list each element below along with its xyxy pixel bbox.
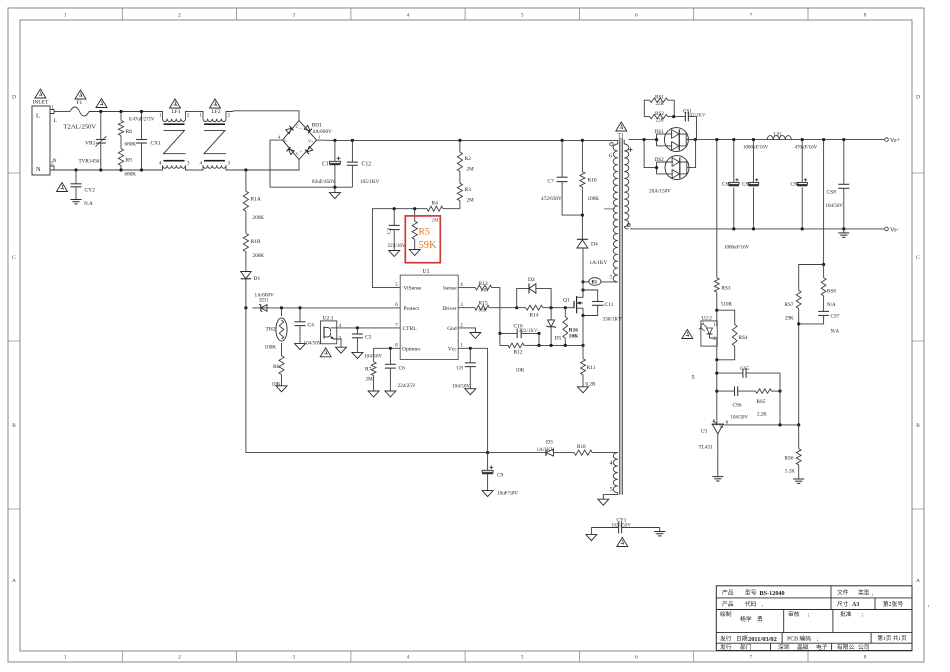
ground C5: [352, 352, 363, 358]
svg-text:发行: 发行: [720, 635, 732, 643]
wire N from inlet: [54, 169, 162, 171]
resistor R12: [500, 333, 508, 345]
node N-CY2: [74, 168, 77, 171]
node CTRL-C5: [356, 326, 359, 329]
ground primary bus: [334, 187, 336, 192]
capacitor C10: [500, 332, 517, 334]
svg-text:59K: 59K: [419, 240, 438, 251]
capacitor CS6: [717, 390, 735, 392]
node rail-snubberL: [643, 138, 646, 141]
svg-text:1000uF/16V: 1000uF/16V: [724, 246, 750, 251]
node bus-C1: [333, 139, 336, 142]
svg-text:200K: 200K: [253, 253, 265, 259]
svg-text:3: 3: [292, 655, 295, 661]
svg-text:1: 1: [319, 135, 321, 140]
node vo- CS4: [801, 227, 804, 230]
svg-text:R18: R18: [577, 444, 586, 450]
svg-text:T2AL/250V: T2AL/250V: [64, 124, 97, 131]
wire N rail to bridge bottom: [228, 160, 299, 171]
wire aux to ground: [603, 493, 618, 500]
svg-text:R9: R9: [126, 158, 133, 164]
svg-text:C7: C7: [548, 179, 555, 185]
svg-text:L: L: [36, 113, 40, 120]
node DS2-in: [655, 166, 658, 169]
node rail-R16: [564, 344, 567, 347]
svg-text:U2:2: U2:2: [702, 316, 713, 322]
svg-text:公司: 公司: [858, 644, 870, 651]
svg-text:R7: R7: [365, 367, 372, 373]
dual diode DS1: [655, 128, 696, 152]
svg-text:A3: A3: [852, 602, 859, 608]
capacitor C6: [389, 348, 391, 364]
choke LF1: [161, 112, 163, 119]
svg-text:Vcc: Vcc: [448, 346, 457, 352]
node RS7-CS7: [797, 322, 800, 325]
wire sense drop: [823, 140, 825, 265]
capacitor C7: [561, 140, 563, 177]
node Optimer-C6: [389, 347, 392, 350]
capacitor C8: [469, 348, 471, 363]
svg-text:CS4: CS4: [791, 183, 800, 188]
transformer primary winding: [616, 140, 618, 144]
svg-text:7: 7: [610, 275, 613, 281]
svg-text:VR1: VR1: [85, 141, 96, 147]
svg-text:100K: 100K: [265, 345, 277, 351]
svg-text:223/16V: 223/16V: [388, 243, 406, 249]
warning triangle T1: [616, 122, 627, 131]
svg-text:3: 3: [292, 13, 295, 19]
svg-text:R5: R5: [419, 228, 430, 238]
node N-VR1: [99, 168, 102, 171]
svg-text:R13: R13: [479, 281, 488, 287]
highlight box R5: [405, 216, 440, 263]
title block: [716, 586, 912, 651]
ground secondary: [843, 229, 845, 233]
svg-text:2M: 2M: [467, 198, 475, 204]
svg-text:4: 4: [610, 461, 613, 467]
resistor R7: [371, 362, 376, 376]
svg-text:部门: 部门: [740, 643, 752, 651]
ground C9: [482, 491, 493, 497]
resistor R13: [475, 285, 492, 290]
wire RS3 drop: [716, 140, 718, 278]
ground aux winding: [598, 499, 609, 505]
node rail-Q1source: [581, 344, 584, 347]
svg-text:RS7: RS7: [785, 302, 794, 308]
svg-text:D: D: [12, 95, 16, 101]
node gate-D5: [550, 306, 553, 309]
svg-text:105/1KV: 105/1KV: [360, 179, 380, 185]
node N-R9: [119, 168, 122, 171]
svg-text:R2: R2: [465, 156, 472, 162]
capacitor CS8: [843, 140, 845, 185]
svg-text:N.A: N.A: [84, 201, 93, 207]
svg-text:型号: 型号: [745, 589, 757, 597]
svg-text:发行: 发行: [720, 643, 732, 651]
warning triangle U2:2: [682, 330, 693, 339]
wire split to RS7: [799, 265, 824, 291]
ground C4: [295, 344, 306, 350]
primary polarity mark: [604, 208, 615, 210]
node C10-right: [537, 332, 540, 335]
svg-text:U3: U3: [701, 429, 708, 435]
resistor R8: [120, 112, 122, 121]
svg-text:R14: R14: [530, 313, 539, 319]
node L-CX1: [140, 110, 143, 113]
node protect-C4: [298, 306, 301, 309]
node vo- CS2: [732, 227, 735, 230]
svg-text:10K: 10K: [272, 382, 281, 388]
svg-text:K: K: [713, 418, 716, 423]
warning triangle U2:1: [320, 348, 331, 357]
resistor R9: [120, 142, 122, 149]
shunt regulator U3 TL431: [712, 423, 724, 425]
svg-text:T1: T1: [618, 133, 624, 139]
svg-text:LS1: LS1: [774, 132, 783, 138]
ferrite bead B1: [583, 281, 589, 283]
thermistor TH2: [281, 308, 283, 316]
ground R6: [276, 386, 287, 392]
svg-text:10R: 10R: [480, 289, 489, 294]
svg-text:1A/1KV: 1A/1KV: [537, 447, 555, 453]
capacitor CS7: [818, 310, 829, 312]
svg-text:RS6: RS6: [785, 456, 794, 462]
svg-text:CS2: CS2: [722, 183, 731, 188]
wire fb node: [716, 360, 718, 426]
svg-text:6: 6: [609, 154, 612, 160]
svg-text:RS1: RS1: [655, 95, 664, 101]
svg-text:RS4: RS4: [739, 335, 748, 341]
svg-text:330/1KV: 330/1KV: [603, 317, 623, 323]
svg-text:审核: 审核: [788, 610, 800, 618]
svg-text:第2张号: 第2张号: [883, 600, 903, 608]
svg-text:29K: 29K: [785, 317, 794, 322]
svg-text:82uF/450V: 82uF/450V: [312, 179, 336, 185]
svg-text:22R: 22R: [656, 118, 665, 123]
svg-text:1000uF/16V: 1000uF/16V: [743, 146, 769, 151]
resistor RS2: [650, 114, 668, 118]
wire snubber left drop: [644, 140, 657, 168]
resistor R15: [458, 307, 475, 309]
svg-text:B: B: [12, 423, 16, 429]
svg-text:RS2: RS2: [655, 111, 664, 117]
wire secondary top rail: [629, 139, 657, 141]
svg-text:5.1K: 5.1K: [785, 470, 795, 475]
svg-text:R12: R12: [514, 350, 523, 356]
svg-text:C: C: [916, 255, 920, 261]
node bus-R2: [458, 139, 461, 142]
svg-text:Gnd: Gnd: [447, 326, 457, 332]
svg-text:5: 5: [521, 13, 524, 19]
node drain-bead: [581, 280, 584, 283]
svg-text:100K: 100K: [588, 196, 600, 202]
ground U2:1: [336, 347, 347, 353]
node vo- CS3: [752, 227, 755, 230]
node snubber-D4: [581, 214, 584, 217]
wire Gnd pin: [458, 328, 475, 333]
ground RS6: [798, 476, 800, 480]
wire LF1-LF2 link: [188, 111, 202, 113]
svg-text:CTRL: CTRL: [403, 326, 418, 332]
diode D2: [517, 288, 529, 307]
wire Isense pin: [458, 287, 471, 289]
svg-text:2: 2: [178, 655, 181, 661]
warning triangle CY1: [617, 538, 628, 547]
svg-text:C: C: [12, 255, 16, 261]
resistor R4: [427, 206, 443, 211]
ground CY1 right: [659, 528, 661, 532]
node rail-R12: [537, 344, 540, 347]
node sense-split: [822, 263, 825, 266]
svg-text:R3: R3: [465, 187, 472, 193]
optocoupler U2:2: [701, 321, 717, 346]
wire Vcc pin: [458, 348, 487, 452]
svg-text:2: 2: [296, 124, 298, 129]
resistor R10: [581, 140, 583, 171]
node Vcc-C8: [469, 347, 472, 350]
svg-text:R1B: R1B: [251, 239, 261, 245]
svg-text:杨学: 杨学: [740, 615, 752, 623]
svg-text:第1页 共1页: 第1页 共1页: [877, 634, 907, 642]
svg-text:5: 5: [610, 487, 613, 493]
svg-text:10uF/50V: 10uF/50V: [497, 491, 518, 497]
svg-text:ViSense: ViSense: [404, 286, 423, 292]
svg-text:Optimer: Optimer: [402, 346, 420, 352]
wire Optimer: [374, 348, 401, 362]
node rail-RS3: [715, 138, 718, 141]
capacitor C4: [299, 308, 301, 322]
transformer T1 core: [619, 138, 621, 495]
optocoupler U2:1: [321, 321, 337, 344]
svg-text:U1: U1: [422, 269, 429, 275]
svg-text:晶磁: 晶磁: [797, 643, 809, 651]
svg-text:文件: 文件: [837, 589, 849, 597]
svg-text:V+: V+: [308, 139, 314, 144]
svg-text:日期: 日期: [736, 636, 748, 643]
node driver-D2: [515, 306, 518, 309]
svg-text:勇: 勇: [757, 615, 763, 623]
wire source rail: [538, 333, 540, 345]
resistor R18: [560, 452, 574, 454]
diode D1: [245, 266, 247, 272]
connector J1 INLET: [32, 106, 50, 175]
svg-text:Driver: Driver: [442, 306, 457, 312]
svg-text:2M: 2M: [366, 377, 374, 383]
choke LF2: [201, 112, 203, 119]
svg-text:D2: D2: [528, 277, 535, 283]
svg-text:222/1KV: 222/1KV: [519, 329, 538, 334]
resistor RS6: [798, 425, 800, 449]
svg-text:A: A: [12, 578, 16, 584]
svg-text:BS-12040: BS-12040: [760, 590, 785, 597]
node L-R8: [119, 110, 122, 113]
node RS2-CS1: [672, 115, 675, 118]
capacitor CS1: [674, 116, 686, 118]
node RS5-right: [778, 390, 781, 393]
node RS4-bottom: [715, 358, 718, 361]
svg-text:N/A: N/A: [827, 303, 836, 308]
inductor LS1: [767, 136, 791, 140]
transformer secondary winding: [624, 144, 629, 227]
node C1-bottom: [333, 186, 336, 189]
svg-text:R15: R15: [479, 301, 488, 307]
resistor RS5: [756, 389, 772, 393]
svg-text:0.47uF/275V: 0.47uF/275V: [129, 118, 155, 123]
node rail-CS3: [752, 138, 755, 141]
svg-text:6: 6: [635, 655, 638, 661]
ground U3: [717, 473, 719, 477]
svg-text:224/25V: 224/25V: [398, 383, 416, 389]
resistor RS7: [796, 290, 801, 308]
ground C8: [465, 389, 476, 395]
node rail-sense: [822, 138, 825, 141]
svg-text:绘制: 绘制: [720, 610, 732, 618]
wire D1 node down to Vcc line: [246, 308, 488, 453]
svg-text:TH2: TH2: [266, 327, 276, 333]
svg-text:深圳: 深圳: [778, 643, 790, 651]
wire main HV bus: [335, 139, 616, 141]
svg-text:D5: D5: [555, 336, 562, 342]
capacitor C2: [393, 209, 395, 226]
node rail-DSout: [694, 138, 697, 141]
terminal Vo-: [885, 227, 889, 231]
resistor R3: [459, 177, 461, 183]
capacitor CS4: [801, 140, 803, 183]
svg-text:C5: C5: [365, 335, 372, 341]
svg-text:CX1: CX1: [151, 141, 162, 147]
svg-text:CS5: CS5: [740, 366, 749, 372]
wire comp to ref: [779, 391, 781, 425]
resistor RS4: [717, 310, 735, 324]
node N-CX1: [140, 168, 143, 171]
resistor R14: [526, 305, 543, 310]
node L-VR1: [99, 110, 102, 113]
svg-text:INLET: INLET: [33, 100, 50, 106]
wire bridge minus loop: [270, 140, 352, 187]
node fb-CS5: [715, 372, 718, 375]
svg-text:电子: 电子: [816, 643, 828, 651]
node N-R1A: [244, 168, 247, 171]
zener D5: [550, 308, 552, 320]
node protect-TH2: [280, 306, 283, 309]
ground R11: [578, 387, 589, 393]
node rail-DS1in: [655, 138, 658, 141]
svg-text:N: N: [36, 166, 41, 173]
svg-text:470uF/16V: 470uF/16V: [795, 146, 818, 151]
svg-text:RS8: RS8: [827, 289, 836, 295]
node rail-CS8: [842, 138, 845, 141]
wire source down: [582, 316, 584, 346]
svg-text:CS3: CS3: [742, 183, 751, 188]
svg-text:类型: 类型: [858, 589, 870, 597]
svg-text:680K: 680K: [125, 142, 137, 148]
svg-text:DS2: DS2: [655, 157, 665, 163]
capacitor C5: [356, 328, 358, 334]
svg-text:104/50V: 104/50V: [826, 204, 844, 209]
node C10-left: [498, 332, 501, 335]
node row-R5: [413, 207, 416, 210]
capacitor CS5: [717, 372, 743, 374]
resistor RS1: [644, 100, 649, 116]
svg-text:V-: V-: [284, 139, 289, 144]
svg-text:20A/150V: 20A/150V: [649, 189, 671, 195]
svg-text:200K: 200K: [253, 215, 265, 221]
svg-text:D1: D1: [254, 276, 261, 282]
node RS3-RS4: [715, 309, 718, 312]
wire gate: [551, 307, 574, 309]
svg-text:R6: R6: [273, 364, 280, 370]
fuse F1: [70, 107, 89, 116]
transformer aux winding: [613, 453, 618, 493]
svg-text:有限公: 有限公: [837, 643, 855, 651]
svg-text:尺寸: 尺寸: [837, 600, 849, 608]
node row-C2: [393, 207, 396, 210]
wire L fuse to LF1: [89, 111, 162, 113]
node bus-C12: [351, 139, 354, 142]
capacitor C9: [487, 453, 489, 471]
resistor R11: [582, 345, 584, 358]
wire CTRL line: [337, 327, 400, 329]
capacitor CS2: [733, 140, 735, 183]
svg-text:4: 4: [407, 13, 410, 19]
svg-text:2M: 2M: [467, 167, 475, 173]
svg-text:Isense: Isense: [443, 286, 457, 292]
svg-text:1: 1: [64, 655, 67, 661]
wire LF2 to bridge top: [228, 111, 299, 121]
capacitor C1: [334, 140, 336, 161]
svg-text:R11: R11: [587, 365, 596, 371]
svg-text:2011/03/02: 2011/03/02: [748, 636, 777, 643]
svg-text:2M: 2M: [432, 219, 440, 224]
svg-text:D: D: [916, 95, 920, 101]
capacitor CS3: [753, 140, 755, 183]
svg-text:LF2: LF2: [212, 109, 221, 115]
svg-text:RS3: RS3: [722, 286, 731, 292]
svg-text:产品: 产品: [722, 589, 734, 597]
capacitor CY1: [591, 527, 618, 529]
node fb-CS6: [715, 390, 718, 393]
node gate-R16: [564, 306, 567, 309]
capacitor C11: [583, 290, 598, 302]
svg-text:C12: C12: [362, 162, 372, 168]
svg-text:C2: C2: [387, 228, 393, 234]
svg-text:DS1: DS1: [655, 129, 665, 135]
node D1-ZD1: [244, 306, 247, 309]
svg-text:R1A: R1A: [251, 197, 261, 203]
svg-text:LF1: LF1: [172, 109, 181, 115]
svg-text:B1: B1: [592, 281, 598, 286]
svg-text:代码: 代码: [745, 600, 757, 608]
dual diode DS2: [655, 140, 696, 180]
svg-text:CS8: CS8: [827, 190, 837, 196]
svg-text:R: R: [726, 420, 729, 425]
ground C2: [389, 251, 400, 257]
svg-text:F1: F1: [77, 100, 83, 106]
svg-text:ZD1: ZD1: [259, 298, 269, 304]
svg-text:B: B: [916, 423, 920, 429]
wire protect line: [268, 307, 400, 309]
svg-text:R8: R8: [126, 129, 133, 135]
node bus-C7: [561, 139, 564, 142]
svg-text:C11: C11: [605, 302, 614, 308]
svg-text:10K: 10K: [516, 368, 525, 374]
svg-text:2: 2: [178, 13, 181, 19]
svg-text:7: 7: [749, 655, 752, 661]
svg-text:C6: C6: [399, 366, 406, 372]
svg-text:C4: C4: [308, 323, 315, 329]
svg-text:5: 5: [521, 655, 524, 661]
svg-text:22R: 22R: [656, 102, 665, 107]
